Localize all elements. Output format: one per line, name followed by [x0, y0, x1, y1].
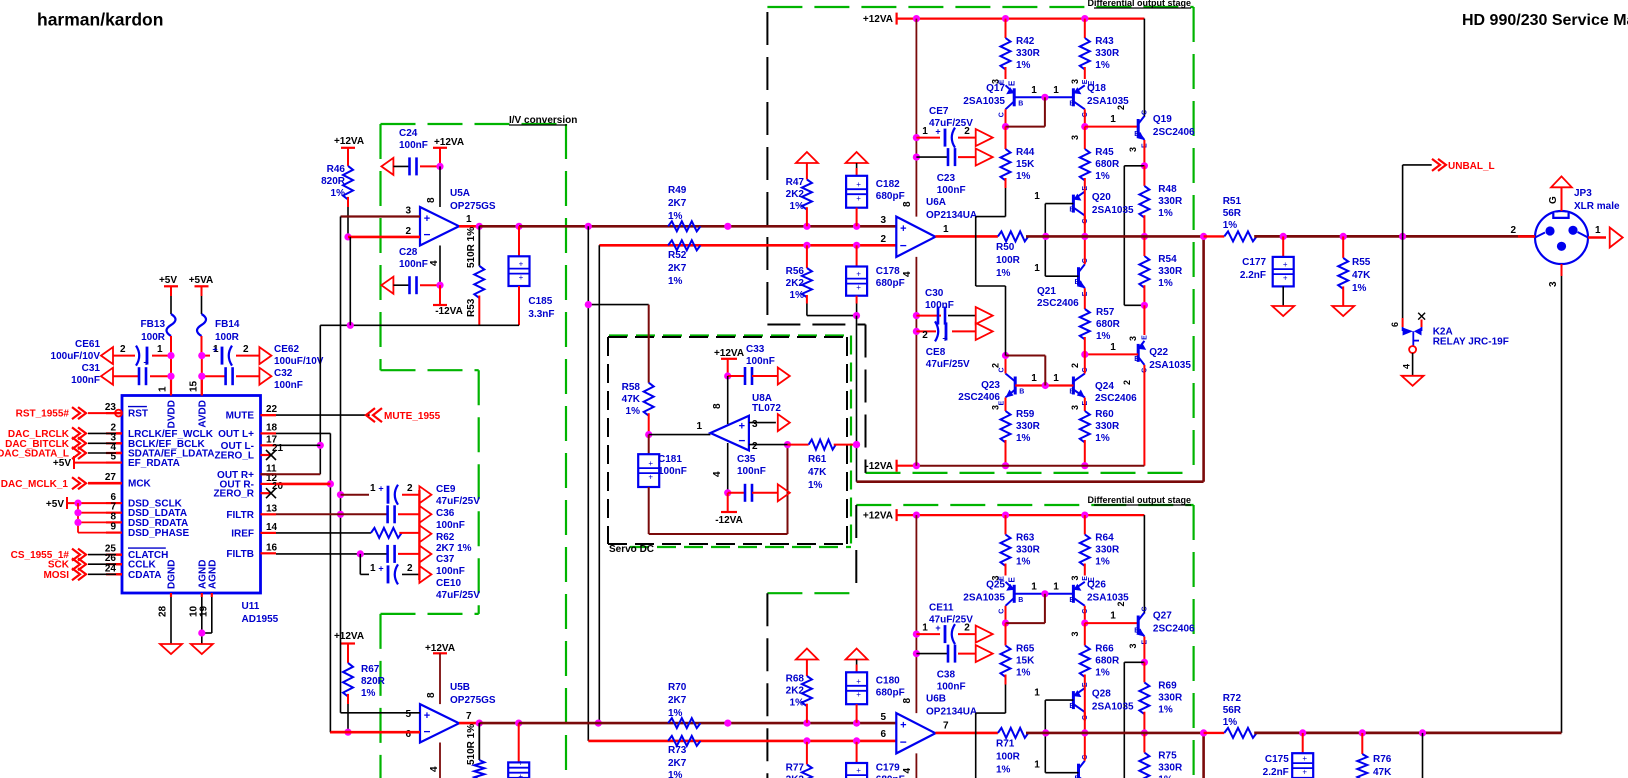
- svg-text:+12VA: +12VA: [863, 14, 893, 25]
- svg-text:+: +: [856, 283, 861, 292]
- svg-text:680pF: 680pF: [876, 688, 905, 699]
- svg-text:6: 6: [880, 729, 886, 740]
- svg-text:B: B: [1134, 131, 1139, 138]
- svg-text:CE61: CE61: [75, 339, 100, 350]
- svg-text:2SC2406: 2SC2406: [1153, 624, 1195, 635]
- svg-text:Q18: Q18: [1087, 83, 1106, 94]
- svg-text:+: +: [212, 345, 217, 355]
- svg-text:2SA1035: 2SA1035: [963, 96, 1005, 107]
- svg-text:+12VA: +12VA: [714, 348, 744, 359]
- svg-text:+12VA: +12VA: [434, 137, 464, 148]
- svg-text:B: B: [1069, 597, 1074, 604]
- svg-text:8: 8: [712, 403, 723, 409]
- svg-text:2: 2: [922, 330, 928, 341]
- svg-text:2K7: 2K7: [668, 263, 687, 274]
- svg-text:Q21: Q21: [1037, 286, 1056, 297]
- svg-text:1%: 1%: [1095, 668, 1110, 679]
- svg-text:3: 3: [1128, 336, 1138, 341]
- svg-text:R59: R59: [1016, 409, 1035, 420]
- svg-text:FB14: FB14: [215, 319, 240, 330]
- svg-text:2SA1035: 2SA1035: [1092, 205, 1134, 216]
- svg-text:1: 1: [466, 214, 472, 225]
- svg-text:+: +: [378, 563, 383, 573]
- svg-text:1%: 1%: [1016, 60, 1031, 71]
- svg-text:100R: 100R: [996, 255, 1021, 266]
- svg-text:B: B: [1018, 100, 1023, 107]
- svg-text:Q27: Q27: [1153, 611, 1172, 622]
- svg-text:+: +: [378, 484, 383, 494]
- svg-text:E: E: [1008, 80, 1017, 86]
- svg-text:13: 13: [266, 503, 278, 514]
- svg-text:100R: 100R: [996, 752, 1021, 763]
- svg-text:+: +: [856, 766, 861, 775]
- svg-text:C32: C32: [274, 368, 293, 379]
- svg-text:B: B: [1134, 628, 1139, 635]
- svg-text:-12VA: -12VA: [715, 515, 743, 526]
- svg-text:R53: R53: [466, 298, 477, 317]
- svg-text:OUT L+: OUT L+: [218, 429, 254, 440]
- svg-text:330R: 330R: [1016, 421, 1041, 432]
- svg-text:Q19: Q19: [1153, 114, 1172, 125]
- svg-text:1: 1: [1053, 373, 1059, 384]
- svg-text:1: 1: [157, 344, 163, 355]
- svg-text:AGND: AGND: [207, 560, 218, 589]
- svg-text:100nF: 100nF: [925, 300, 954, 311]
- svg-text:1: 1: [1034, 688, 1040, 699]
- svg-text:C175: C175: [1265, 754, 1289, 765]
- svg-text:R75: R75: [1158, 751, 1177, 762]
- svg-text:2K2: 2K2: [786, 775, 805, 778]
- svg-text:EF_RDATA: EF_RDATA: [128, 458, 180, 469]
- svg-text:+: +: [856, 270, 861, 279]
- svg-text:+: +: [1283, 274, 1288, 283]
- svg-text:1%: 1%: [668, 211, 683, 222]
- svg-text:C179: C179: [876, 763, 900, 774]
- svg-text:47uF/25V: 47uF/25V: [436, 590, 480, 601]
- svg-text:MCK: MCK: [128, 479, 152, 490]
- svg-text:C38: C38: [937, 670, 956, 681]
- svg-text:100nF: 100nF: [71, 375, 100, 386]
- svg-text:R70: R70: [668, 682, 687, 693]
- svg-text:100R: 100R: [141, 332, 166, 343]
- svg-text:C178: C178: [876, 266, 900, 277]
- svg-text:2SA1035: 2SA1035: [1092, 702, 1134, 713]
- svg-text:1: 1: [1110, 342, 1116, 353]
- svg-text:1%: 1%: [1352, 283, 1367, 294]
- svg-text:−: −: [423, 725, 430, 739]
- svg-text:MUTE_1955: MUTE_1955: [384, 411, 441, 422]
- svg-text:C185: C185: [528, 296, 552, 307]
- svg-text:DSD_PHASE: DSD_PHASE: [128, 528, 189, 539]
- svg-text:C: C: [999, 609, 1006, 614]
- svg-text:RST_1955#: RST_1955#: [16, 409, 70, 420]
- svg-text:100uF/10V: 100uF/10V: [274, 356, 324, 367]
- svg-text:1%: 1%: [808, 480, 823, 491]
- svg-text:19: 19: [198, 605, 209, 617]
- svg-text:2.2nF: 2.2nF: [1240, 270, 1266, 281]
- svg-text:100nF: 100nF: [746, 356, 775, 367]
- svg-text:1%: 1%: [1223, 717, 1238, 728]
- svg-text:OP275GS: OP275GS: [450, 695, 496, 706]
- svg-text:100nF: 100nF: [274, 380, 303, 391]
- svg-text:2K2: 2K2: [786, 686, 805, 697]
- svg-text:+5V: +5V: [159, 275, 177, 286]
- svg-text:3: 3: [1070, 575, 1080, 580]
- svg-text:R43: R43: [1095, 36, 1114, 47]
- svg-text:330R: 330R: [1016, 545, 1041, 556]
- svg-text:CE9: CE9: [436, 484, 456, 495]
- svg-text:C37: C37: [436, 554, 455, 565]
- svg-text:47K: 47K: [808, 467, 827, 478]
- svg-text:+: +: [856, 690, 861, 699]
- svg-text:R45: R45: [1095, 147, 1114, 158]
- svg-text:330R: 330R: [1158, 693, 1183, 704]
- svg-text:1: 1: [370, 483, 376, 494]
- svg-text:R42: R42: [1016, 36, 1035, 47]
- svg-text:2: 2: [407, 563, 413, 574]
- svg-text:B: B: [1069, 389, 1074, 396]
- svg-text:1%: 1%: [1158, 208, 1173, 219]
- svg-text:2SC2406: 2SC2406: [1037, 298, 1079, 309]
- svg-text:1%: 1%: [1095, 557, 1110, 568]
- svg-text:B: B: [1018, 597, 1023, 604]
- svg-text:R50: R50: [996, 242, 1015, 253]
- svg-text:CE7: CE7: [929, 106, 949, 117]
- svg-text:JP3: JP3: [1574, 188, 1592, 199]
- svg-text:2SC2406: 2SC2406: [1153, 127, 1195, 138]
- svg-text:B: B: [1019, 389, 1024, 396]
- svg-text:HD 990/230 Service Manual: HD 990/230 Service Manual: [1462, 12, 1628, 29]
- svg-text:1%: 1%: [1095, 60, 1110, 71]
- svg-text:3: 3: [752, 419, 758, 430]
- svg-text:2: 2: [1116, 105, 1126, 110]
- svg-text:680pF: 680pF: [876, 191, 905, 202]
- svg-text:4: 4: [429, 766, 440, 772]
- svg-text:Q25: Q25: [986, 580, 1005, 591]
- svg-text:E: E: [1008, 577, 1017, 583]
- svg-text:1%: 1%: [1158, 775, 1173, 778]
- svg-text:+12VA: +12VA: [334, 631, 364, 642]
- svg-text:820R: 820R: [361, 676, 386, 687]
- svg-text:3: 3: [1070, 79, 1080, 84]
- svg-text:2: 2: [752, 441, 758, 452]
- svg-text:+: +: [942, 333, 947, 343]
- svg-text:C30: C30: [925, 288, 944, 299]
- svg-text:2SC2406: 2SC2406: [958, 392, 1000, 403]
- svg-text:2K7: 2K7: [668, 695, 687, 706]
- svg-text:100nF: 100nF: [436, 566, 465, 577]
- svg-text:510R 1%: 510R 1%: [466, 724, 477, 765]
- svg-text:2: 2: [880, 234, 886, 245]
- svg-text:AVDD: AVDD: [197, 400, 208, 428]
- svg-text:C182: C182: [876, 179, 900, 190]
- svg-text:CE8: CE8: [926, 347, 946, 358]
- svg-text:1%: 1%: [1223, 220, 1238, 231]
- svg-text:1%: 1%: [1016, 171, 1031, 182]
- svg-text:FB13: FB13: [141, 319, 166, 330]
- svg-text:1%: 1%: [1016, 433, 1031, 444]
- svg-text:47K: 47K: [1373, 767, 1392, 778]
- svg-text:7: 7: [466, 711, 472, 722]
- svg-text:2.2nF: 2.2nF: [1263, 767, 1289, 778]
- svg-text:R48: R48: [1158, 184, 1177, 195]
- svg-text:1%: 1%: [1158, 705, 1173, 716]
- svg-text:4: 4: [712, 471, 723, 477]
- svg-text:28: 28: [158, 605, 169, 617]
- svg-text:2: 2: [405, 226, 411, 237]
- svg-text:+: +: [648, 459, 653, 468]
- svg-text:R76: R76: [1373, 754, 1392, 765]
- svg-text:B: B: [1069, 703, 1074, 710]
- svg-text:+: +: [900, 719, 906, 731]
- svg-text:2: 2: [964, 623, 970, 634]
- svg-text:680R: 680R: [1095, 159, 1120, 170]
- svg-text:IREF: IREF: [231, 528, 254, 539]
- svg-text:U6A: U6A: [926, 197, 946, 208]
- svg-text:B: B: [1069, 100, 1074, 107]
- svg-text:3: 3: [880, 215, 886, 226]
- svg-text:C: C: [1141, 606, 1148, 611]
- svg-text:1%: 1%: [1095, 171, 1110, 182]
- svg-text:100nF: 100nF: [658, 466, 687, 477]
- svg-text:1%: 1%: [790, 201, 805, 212]
- svg-text:B: B: [1134, 356, 1139, 363]
- svg-text:3: 3: [405, 206, 411, 217]
- svg-text:3.3nF: 3.3nF: [528, 309, 554, 320]
- svg-text:27: 27: [105, 472, 117, 483]
- svg-text:100nF: 100nF: [737, 466, 766, 477]
- svg-text:330R: 330R: [1016, 48, 1041, 59]
- svg-text:330R: 330R: [1158, 196, 1183, 207]
- svg-text:1: 1: [1110, 611, 1116, 622]
- svg-text:C181: C181: [658, 454, 682, 465]
- svg-text:1%: 1%: [361, 688, 376, 699]
- svg-text:R62: R62: [436, 532, 455, 543]
- svg-text:+: +: [518, 772, 523, 778]
- svg-text:−: −: [900, 239, 907, 253]
- svg-text:OP2134UA: OP2134UA: [926, 210, 977, 221]
- svg-text:+: +: [856, 194, 861, 203]
- svg-text:I/V conversion: I/V conversion: [509, 115, 577, 126]
- svg-text:2K7: 2K7: [668, 198, 687, 209]
- svg-text:R49: R49: [668, 185, 687, 196]
- svg-text:CE62: CE62: [274, 344, 299, 355]
- svg-text:-12VA: -12VA: [865, 461, 893, 472]
- svg-text:TL072: TL072: [752, 403, 781, 414]
- svg-text:Servo DC: Servo DC: [609, 544, 654, 555]
- svg-text:15K: 15K: [1016, 656, 1035, 667]
- svg-text:1%: 1%: [790, 290, 805, 301]
- svg-text:2K2: 2K2: [786, 278, 805, 289]
- svg-text:6: 6: [1390, 322, 1400, 327]
- svg-text:2: 2: [407, 483, 413, 494]
- svg-text:FILTB: FILTB: [226, 549, 254, 560]
- svg-text:+: +: [1302, 754, 1307, 763]
- svg-text:DVDD: DVDD: [167, 400, 178, 428]
- svg-text:C36: C36: [436, 508, 455, 519]
- svg-text:+: +: [935, 623, 940, 633]
- svg-text:56R: 56R: [1223, 705, 1242, 716]
- svg-text:1: 1: [1034, 191, 1040, 202]
- svg-text:+12VA: +12VA: [863, 511, 893, 522]
- svg-text:330R: 330R: [1158, 266, 1183, 277]
- svg-text:Q17: Q17: [986, 83, 1005, 94]
- svg-text:R56: R56: [786, 266, 805, 277]
- svg-text:R63: R63: [1016, 533, 1035, 544]
- svg-text:1: 1: [1053, 85, 1059, 96]
- svg-text:22: 22: [266, 404, 278, 415]
- svg-text:2SA1035: 2SA1035: [963, 593, 1005, 604]
- svg-text:R60: R60: [1095, 409, 1114, 420]
- svg-text:3: 3: [1548, 281, 1559, 287]
- svg-text:ZERO_R: ZERO_R: [213, 489, 254, 500]
- svg-text:+5V: +5V: [46, 499, 64, 510]
- svg-text:1: 1: [943, 224, 949, 235]
- svg-text:U6B: U6B: [926, 694, 946, 705]
- svg-text:14: 14: [266, 522, 278, 533]
- svg-text:R57: R57: [1096, 307, 1115, 318]
- svg-text:+5VA: +5VA: [189, 275, 214, 286]
- svg-text:1: 1: [1034, 263, 1040, 274]
- svg-text:330R: 330R: [1095, 545, 1120, 556]
- svg-text:R77: R77: [786, 763, 805, 774]
- svg-text:1: 1: [1031, 582, 1037, 593]
- svg-text:56R: 56R: [1223, 208, 1242, 219]
- svg-text:DGND: DGND: [167, 560, 178, 589]
- svg-text:820R: 820R: [321, 176, 346, 187]
- svg-text:7: 7: [943, 721, 949, 732]
- svg-text:C177: C177: [1242, 257, 1266, 268]
- svg-text:XLR male: XLR male: [1574, 201, 1620, 212]
- svg-text:5: 5: [405, 709, 411, 720]
- svg-text:2: 2: [1116, 601, 1126, 606]
- svg-text:R46: R46: [327, 164, 346, 175]
- svg-text:C35: C35: [737, 454, 756, 465]
- svg-text:1%: 1%: [1158, 278, 1173, 289]
- svg-text:R71: R71: [996, 739, 1015, 750]
- svg-text:R73: R73: [668, 745, 687, 756]
- svg-text:100nF: 100nF: [937, 682, 966, 693]
- svg-text:1: 1: [922, 126, 928, 137]
- svg-text:1%: 1%: [626, 406, 641, 417]
- svg-text:8: 8: [426, 197, 437, 203]
- svg-text:47uF/25V: 47uF/25V: [926, 359, 970, 370]
- svg-text:1%: 1%: [996, 268, 1011, 279]
- svg-text:+: +: [739, 420, 745, 432]
- svg-text:C: C: [999, 112, 1006, 117]
- svg-text:680R: 680R: [1095, 656, 1120, 667]
- svg-text:+: +: [519, 273, 524, 282]
- svg-text:100nF: 100nF: [937, 185, 966, 196]
- svg-text:CDATA: CDATA: [128, 570, 162, 581]
- svg-text:100nF: 100nF: [399, 140, 428, 151]
- svg-text:2: 2: [991, 363, 1001, 368]
- svg-text:C31: C31: [82, 363, 101, 374]
- svg-text:3: 3: [1070, 405, 1080, 410]
- svg-text:MOSI: MOSI: [43, 570, 69, 581]
- svg-text:330R: 330R: [1095, 421, 1120, 432]
- svg-text:G: G: [1548, 196, 1559, 204]
- svg-text:Q23: Q23: [981, 380, 1000, 391]
- svg-text:E: E: [1141, 335, 1148, 340]
- svg-text:CE11: CE11: [929, 603, 954, 614]
- svg-text:Differential output stage: Differential output stage: [1087, 0, 1191, 8]
- svg-text:18: 18: [266, 422, 278, 433]
- svg-text:1%: 1%: [1016, 557, 1031, 568]
- svg-text:R47: R47: [786, 177, 805, 188]
- svg-text:2: 2: [1510, 225, 1516, 236]
- svg-text:C33: C33: [746, 344, 765, 355]
- svg-text:330R: 330R: [1158, 763, 1183, 774]
- svg-text:47K: 47K: [622, 394, 641, 405]
- svg-text:CE10: CE10: [436, 578, 461, 589]
- svg-text:R68: R68: [786, 674, 805, 685]
- svg-text:2SA1035: 2SA1035: [1149, 360, 1191, 371]
- svg-text:+12VA: +12VA: [334, 136, 364, 147]
- svg-text:U5B: U5B: [450, 682, 470, 693]
- svg-text:RELAY JRC-19F: RELAY JRC-19F: [1433, 337, 1509, 348]
- svg-text:R44: R44: [1016, 147, 1035, 158]
- svg-text:Q24: Q24: [1095, 381, 1114, 392]
- svg-text:1: 1: [1595, 225, 1601, 236]
- svg-text:FILTR: FILTR: [226, 510, 254, 521]
- svg-text:2: 2: [1122, 380, 1132, 385]
- svg-text:Differential output stage: Differential output stage: [1087, 495, 1191, 505]
- svg-text:4: 4: [1402, 364, 1412, 369]
- svg-text:+: +: [935, 127, 940, 137]
- svg-text:1%: 1%: [668, 708, 683, 719]
- svg-text:ZERO_L: ZERO_L: [215, 451, 254, 462]
- svg-text:R51: R51: [1223, 196, 1242, 207]
- svg-text:5: 5: [880, 712, 886, 723]
- svg-text:harman/kardon: harman/kardon: [37, 10, 163, 30]
- svg-text:15: 15: [188, 380, 199, 392]
- svg-text:4: 4: [902, 768, 913, 774]
- svg-text:U11: U11: [242, 601, 260, 612]
- svg-text:680pF: 680pF: [876, 775, 905, 778]
- svg-text:R61: R61: [808, 454, 827, 465]
- svg-text:+: +: [856, 180, 861, 189]
- svg-text:Q20: Q20: [1092, 192, 1111, 203]
- svg-text:1: 1: [1031, 85, 1037, 96]
- svg-text:R67: R67: [361, 664, 380, 675]
- svg-text:2K7 1%: 2K7 1%: [436, 543, 472, 554]
- svg-text:+: +: [856, 677, 861, 686]
- svg-text:−: −: [900, 735, 907, 749]
- svg-text:R66: R66: [1095, 644, 1114, 655]
- svg-text:R64: R64: [1095, 533, 1114, 544]
- svg-text:C28: C28: [399, 247, 418, 258]
- svg-text:1%: 1%: [996, 765, 1011, 776]
- svg-text:+: +: [1283, 260, 1288, 269]
- svg-text:R65: R65: [1016, 644, 1035, 655]
- svg-text:3: 3: [991, 405, 1001, 410]
- svg-text:4: 4: [429, 260, 440, 266]
- svg-text:1%: 1%: [668, 276, 683, 287]
- svg-text:2: 2: [120, 344, 126, 355]
- svg-text:+: +: [648, 473, 653, 482]
- svg-text:+: +: [143, 358, 148, 368]
- svg-text:47K: 47K: [1352, 270, 1371, 281]
- svg-text:C: C: [1141, 110, 1148, 115]
- svg-text:100nF: 100nF: [436, 520, 465, 531]
- svg-text:510R 1%: 510R 1%: [466, 227, 477, 268]
- svg-text:Q22: Q22: [1149, 347, 1168, 358]
- svg-text:C180: C180: [876, 676, 900, 687]
- svg-text:+: +: [900, 223, 906, 235]
- svg-text:9: 9: [110, 522, 116, 533]
- svg-text:47uF/25V: 47uF/25V: [436, 496, 480, 507]
